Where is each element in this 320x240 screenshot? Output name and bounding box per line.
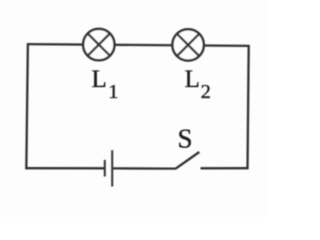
wire left vertical [26, 43, 28, 169]
svg-text:2: 2 [201, 81, 211, 103]
battery cell: long positive plate [111, 150, 113, 186]
wire bottom middle segment (battery to switch pivot) [113, 167, 176, 170]
wire bottom left segment (corner to battery) [25, 167, 104, 169]
battery cell: short negative plate [104, 160, 106, 177]
svg-text:S: S [178, 124, 193, 154]
label L1 [92, 66, 119, 103]
label L2 [185, 66, 211, 103]
svg-text:L: L [185, 66, 200, 93]
wire top (left corner to right corner) [27, 44, 249, 46]
switch S open blade [175, 152, 199, 169]
svg-text:1: 1 [108, 81, 118, 103]
lamp L2 (circle with cross) [172, 29, 203, 60]
wire bottom right segment (switch contact to corner) [201, 167, 249, 169]
wire right vertical [248, 45, 249, 169]
lamp L1 (circle with cross) [83, 29, 114, 60]
svg-text:L: L [92, 66, 107, 93]
